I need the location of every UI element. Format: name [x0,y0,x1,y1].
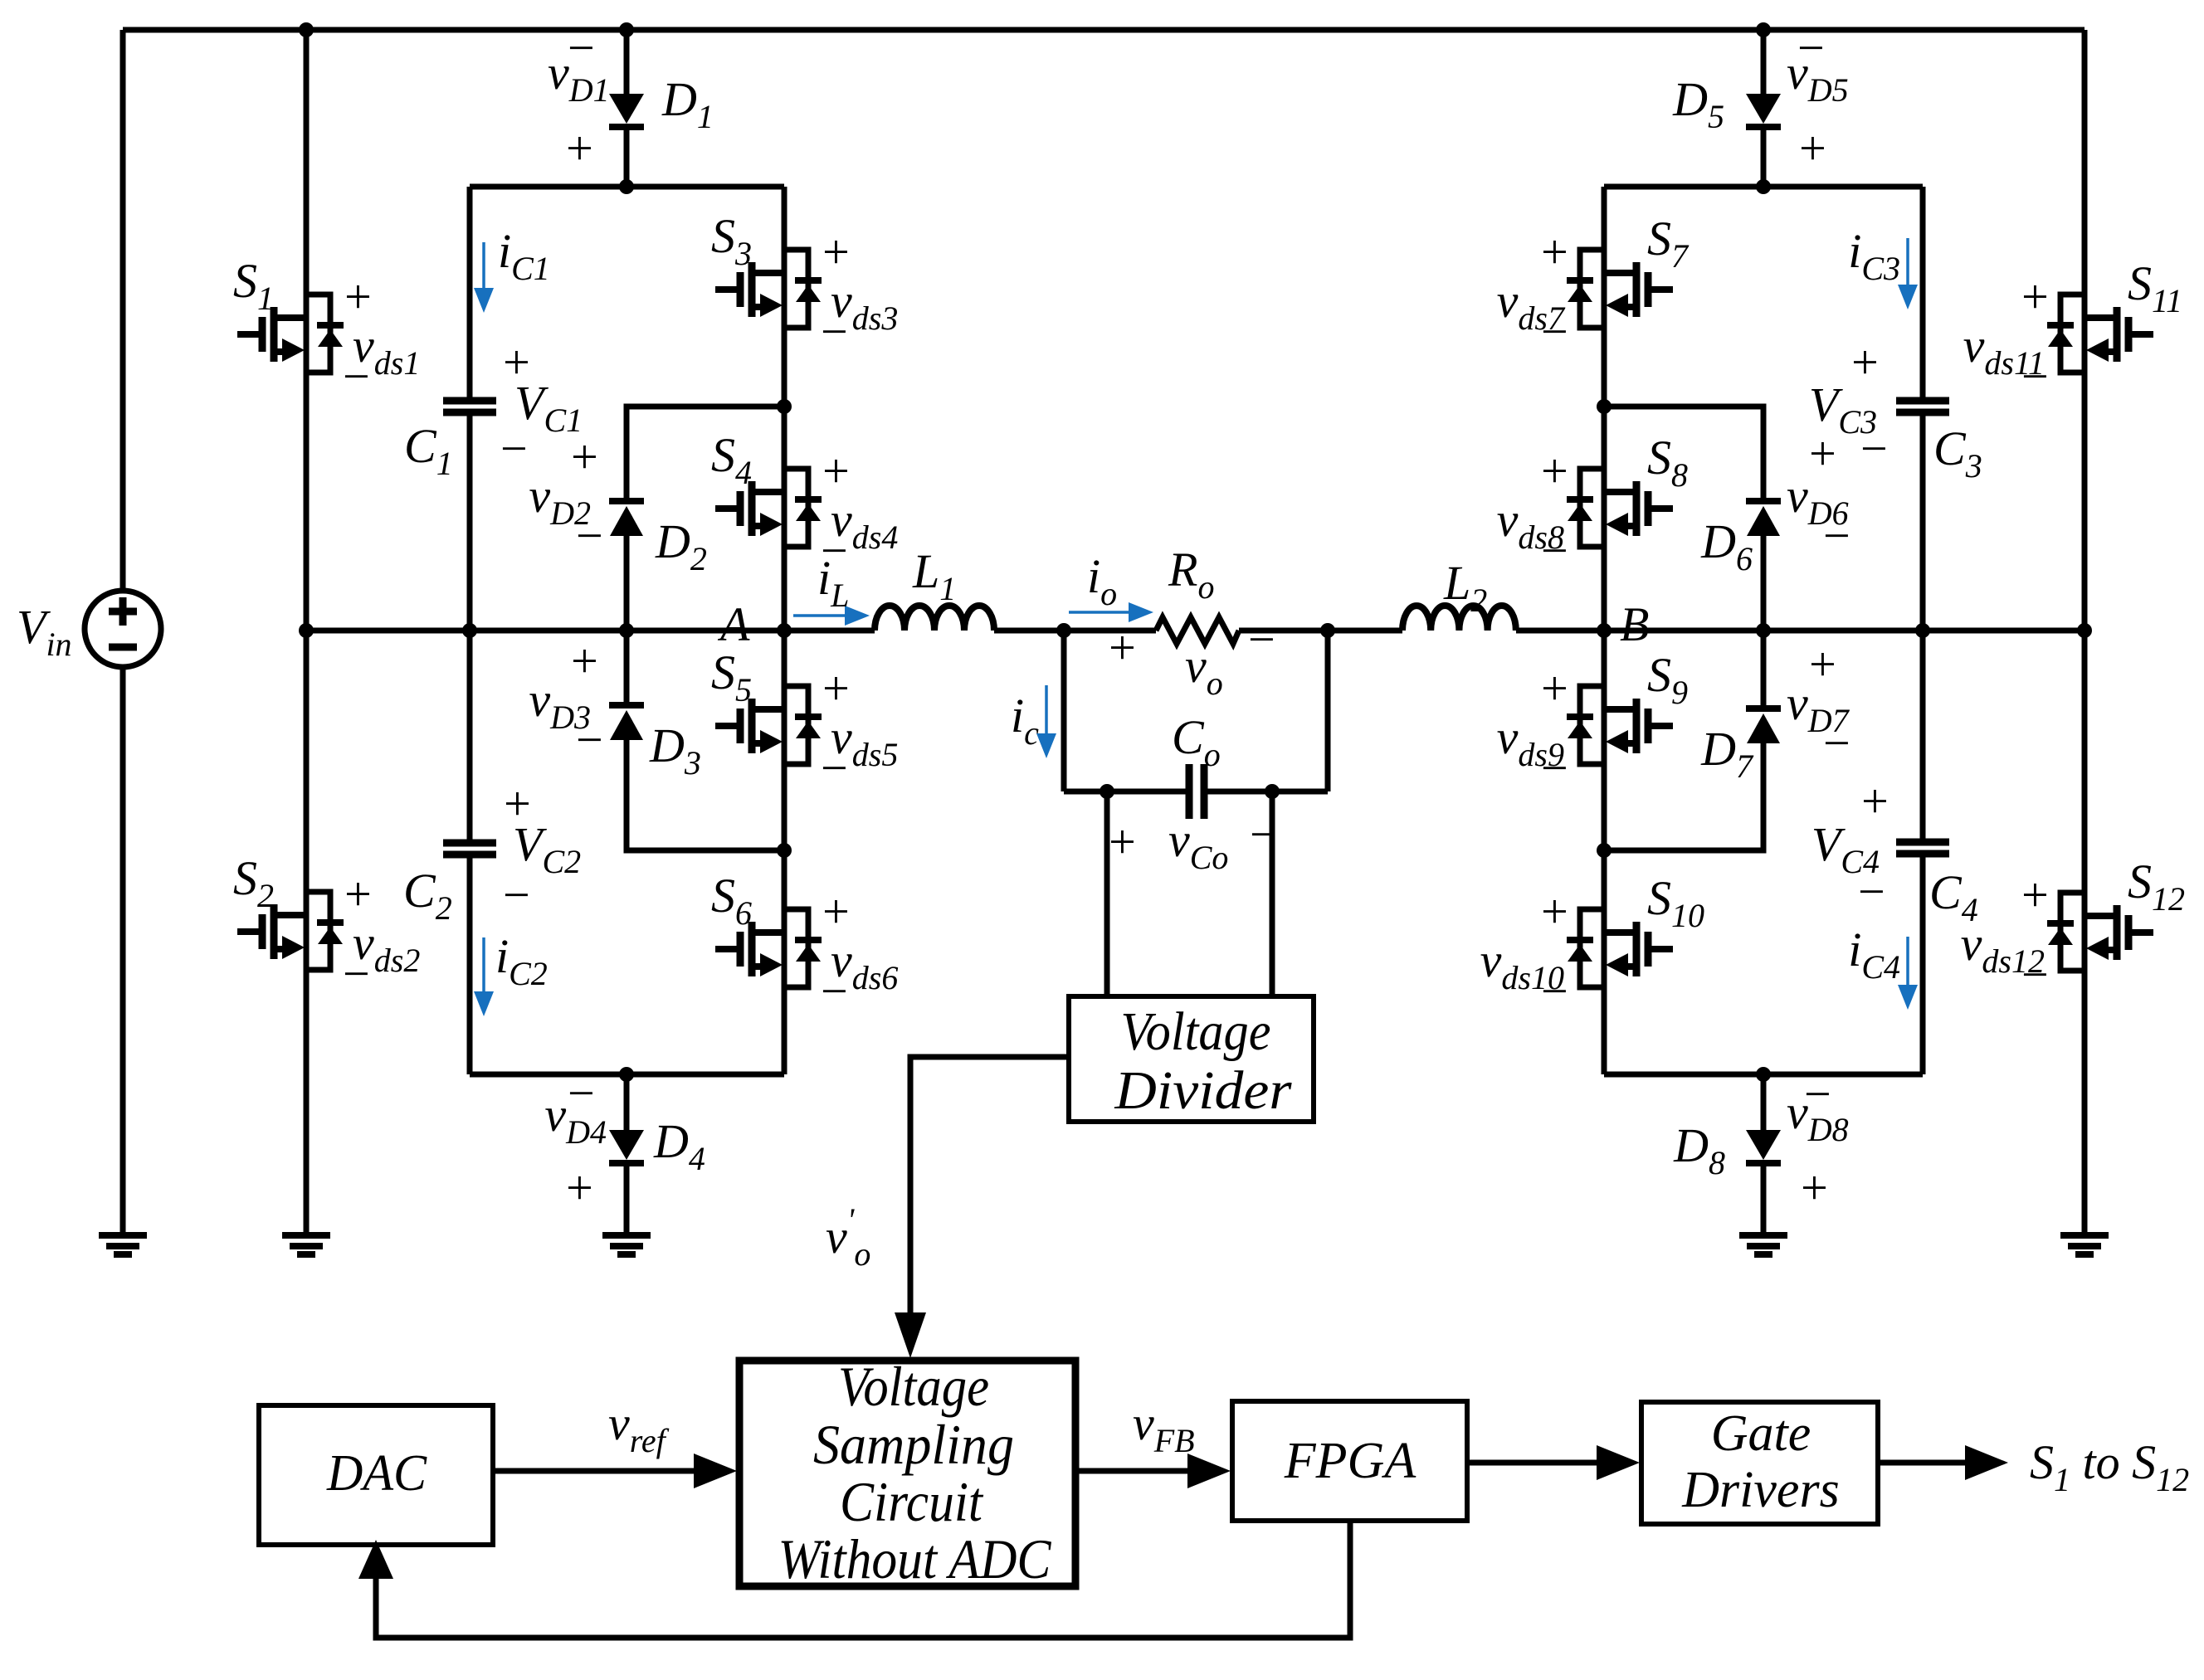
svg-text:−: − [564,1066,597,1120]
ground (S12 column) [2060,1235,2109,1254]
svg-text:vo: vo [1185,639,1223,702]
transistor S9 [1567,686,1673,764]
node mid rail / S11-S12 [2077,623,2092,638]
node S7-S8 junction [1597,399,1612,414]
svg-text:S5: S5 [711,645,752,709]
svg-text:−: − [497,421,529,475]
svg-text:+: + [1797,1161,1830,1215]
wire right block top rail [1604,184,1923,190]
wire C2 column [467,631,473,843]
transistor S12 [2047,893,2153,971]
transistor S3 [715,250,822,328]
voltage source Vin [85,591,161,667]
wire Voltage Divider output [910,1057,1069,1315]
svg-text:Co: Co [1172,710,1221,773]
svg-text:D4: D4 [653,1114,705,1177]
svg-text:C3: C3 [1933,421,1982,485]
diode D3 [609,702,644,709]
svg-text:+: + [2018,270,2050,324]
ground (S2 column) [282,1235,330,1254]
arrow FPGA to Gate Drivers [1467,1460,1597,1466]
svg-text:+: + [819,661,851,715]
svg-text:Voltage: Voltage [838,1355,989,1418]
transistor S5 [715,686,822,764]
svg-text:+: + [568,634,600,688]
svg-text:−: − [1538,304,1570,358]
node B [1597,623,1612,638]
wire right block bottom rail [1604,1072,1923,1078]
wire C3 column [1920,187,1926,401]
node S9-S10 junction [1597,843,1612,858]
svg-text:+: + [1538,225,1570,279]
svg-text:Sampling: Sampling [813,1413,1014,1476]
current arrow iC2 [482,937,485,991]
wire S1/S2 column [304,30,310,1235]
wire S5-S6 column [782,631,787,1074]
current arrow iC1 [482,242,485,288]
capacitor C2 [443,843,496,855]
wire Co rail left [1064,789,1189,795]
wire left outer column bottom [120,667,126,1235]
wire to Voltage Divider right [1270,791,1275,996]
capacitor C3 [1896,401,1949,412]
capacitor C1 [443,401,496,412]
svg-text:L1: L1 [912,544,956,607]
box Voltage Divider [1069,996,1314,1122]
transistor S10 [1567,909,1673,987]
wire D5 branch [1761,30,1767,94]
svg-text:+: + [1848,335,1880,389]
transistor S6 [715,909,822,987]
transistor S7 [1567,250,1673,328]
current arrow iC4 [1906,937,1909,985]
wire D7 branch [1761,631,1767,705]
wire left block top rail [470,184,784,190]
transistor S11 [2047,295,2153,373]
diode D7 [1746,705,1781,712]
wire left outer column top [120,30,126,591]
capacitor Co [1189,764,1204,819]
node S3-S4 junction [777,399,792,414]
wire S9-S10 column [1602,631,1607,1074]
svg-text:+: + [819,225,851,279]
svg-text:S9: S9 [1647,648,1688,711]
node D8 junction [1756,1067,1771,1082]
wire loop right vertical [1325,631,1331,791]
svg-text:D1: D1 [661,72,714,135]
ground (D8) [1739,1235,1787,1254]
svg-text:Voltage: Voltage [1121,1001,1271,1062]
svg-text:S10: S10 [1647,871,1704,934]
svg-text:Without ADC: Without ADC [778,1527,1052,1590]
arrow DAC to sampling [493,1468,694,1474]
node VD right [1265,784,1280,799]
svg-text:D3: D3 [649,718,701,782]
node D1 bottom [619,179,634,194]
wire Co rail right [1204,789,1328,795]
node D4 junction [619,1067,634,1082]
diode D4 [609,1130,644,1160]
wire S3-S4 column [782,187,787,631]
node VD left [1100,784,1114,799]
svg-text:+: + [563,1161,595,1215]
node mid rail / C1-C2 [462,623,477,638]
svg-text:−: − [1538,523,1570,577]
node mid rail / D6-D7 [1756,623,1771,638]
resistor Ro [1156,617,1239,644]
svg-text:+: + [819,884,851,938]
wire mid rail right section [1516,628,2085,634]
svg-text:+: + [1796,121,1828,175]
current arrow iL [793,614,845,617]
capacitor C4 [1896,842,1949,854]
wire C1 column top [467,187,473,401]
svg-text:+: + [1538,884,1570,938]
svg-text:C1: C1 [404,419,453,482]
svg-text:D5: D5 [1672,72,1724,135]
svg-text:iC1: iC1 [498,224,550,287]
svg-text:Gate: Gate [1711,1405,1811,1462]
svg-text:vCo: vCo [1168,813,1228,876]
wire D6 branch [1604,407,1763,498]
svg-text:S11: S11 [2128,256,2182,319]
svg-text:+: + [2018,868,2050,922]
ground (D4) [602,1235,651,1254]
node loop right [1320,623,1335,638]
wire C4 column [1920,631,1926,842]
svg-text:DAC: DAC [326,1445,427,1502]
svg-text:S1: S1 [233,254,274,317]
svg-text:A: A [717,597,750,651]
diode D6 [1746,498,1781,504]
svg-text:FPGA: FPGA [1284,1433,1417,1489]
svg-text:D7: D7 [1700,722,1754,785]
svg-text:S6: S6 [711,869,752,932]
current arrow ic [1045,685,1048,733]
svg-text:S4: S4 [711,428,752,491]
wire D1 branch [624,30,630,94]
svg-text:+: + [1806,426,1838,480]
inductor L1 [875,606,994,631]
svg-text:Drivers: Drivers [1681,1462,1839,1518]
svg-text:io: io [1087,549,1117,612]
svg-text:Circuit: Circuit [840,1470,984,1533]
svg-text:D6: D6 [1700,514,1753,577]
svg-text:+: + [1538,444,1570,498]
node mid rail / D2-D3 [619,623,634,638]
svg-text:−: − [1820,716,1852,770]
svg-text:L2: L2 [1443,556,1487,619]
diode D8 [1746,1130,1781,1160]
svg-text:D2: D2 [655,514,707,577]
svg-text:+: + [1538,661,1570,715]
svg-text:iC4: iC4 [1848,923,1900,986]
svg-text:−: − [573,509,605,562]
svg-text:+: + [568,430,600,484]
box DAC [259,1405,493,1545]
wire mid rail after Ro [1239,628,1402,634]
node A [777,623,792,638]
svg-text:+: + [563,121,595,175]
svg-text:−: − [1855,864,1887,918]
svg-text:S2: S2 [233,851,274,914]
diode D5 [1746,94,1781,124]
svg-text:+: + [1105,815,1138,869]
svg-text:−: − [500,868,532,922]
inductor L2 [1402,606,1516,631]
wire FPGA feedback to DAC [376,1521,1350,1638]
svg-text:+: + [1105,621,1138,674]
current arrow iC3 [1906,238,1909,285]
svg-text:−: − [2018,947,2050,1001]
svg-text:−: − [573,713,605,767]
node S5-S6 junction [777,843,792,858]
wire D8 branch [1761,1074,1767,1130]
svg-text:iC3: iC3 [1848,224,1900,287]
svg-text:S3: S3 [711,209,752,272]
wire right outer column (S11/S12) [2082,30,2088,1235]
svg-text:B: B [1620,597,1649,651]
wire left block bottom rail [470,1072,784,1078]
svg-text:−: − [817,741,850,795]
svg-text:−: − [564,21,597,75]
node top rail / D1 [619,22,634,37]
svg-text:+: + [341,270,373,324]
wire mid rail left section [306,628,875,634]
node D5 bottom [1756,179,1771,194]
svg-text:C2: C2 [403,864,452,927]
box Voltage Sampling Circuit Without ADC [739,1361,1075,1586]
diode D2 [609,498,644,504]
svg-text:vref: vref [608,1396,670,1459]
node top rail / S1 column [299,22,314,37]
wire top rail [123,27,2085,33]
wire mid rail A-loop section [994,628,1156,634]
arrow Gate Drivers output [1878,1460,1965,1466]
wire D2 branch [627,407,784,498]
arrow sampling to FPGA [1075,1468,1187,1474]
svg-text:−: − [2018,349,2050,403]
svg-text:−: − [817,304,850,358]
svg-text:S12: S12 [2128,855,2185,918]
svg-text:Ro: Ro [1168,543,1214,606]
wire loop left vertical [1061,631,1067,791]
box FPGA [1232,1401,1467,1521]
wire S7-S8 column [1602,187,1607,631]
box Gate Drivers [1641,1402,1878,1524]
svg-text:−: − [1538,741,1570,795]
transistor S1 [237,295,344,373]
svg-text:−: − [1538,964,1570,1018]
node mid rail / C3-C4 [1915,623,1930,638]
svg-text:+: + [1806,637,1838,691]
svg-text:−: − [817,964,850,1018]
transistor S8 [1567,469,1673,547]
wire D4 branch [624,1074,630,1130]
wire D3 branch [624,631,630,705]
svg-text:−: − [339,947,372,1001]
svg-text:+: + [1858,774,1890,828]
svg-text:v'o: v'o [826,1201,870,1273]
svg-text:−: − [339,349,372,403]
svg-text:vFB: vFB [1133,1396,1195,1459]
svg-text:iC2: iC2 [495,929,548,992]
svg-text:−: − [1820,509,1852,562]
svg-text:S1 to S12: S1 to S12 [2030,1435,2189,1498]
svg-text:S8: S8 [1647,431,1688,494]
svg-text:Divider: Divider [1114,1060,1291,1121]
node top rail / D5 [1756,22,1771,37]
svg-text:+: + [819,444,851,498]
svg-text:Vin: Vin [17,600,72,663]
transistor S4 [715,469,822,547]
svg-text:+: + [341,867,373,921]
wire to Voltage Divider left [1104,791,1110,996]
svg-text:ic: ic [1011,689,1039,752]
transistor S2 [237,892,344,970]
diode D1 [609,94,644,124]
svg-text:−: − [1245,612,1277,666]
svg-text:D8: D8 [1673,1118,1725,1181]
svg-text:−: − [1857,421,1889,475]
node loop left [1056,623,1071,638]
node mid rail / S1-S2 [299,623,314,638]
current arrow io [1069,611,1129,614]
ground (left outer) [99,1235,147,1254]
svg-text:S7: S7 [1647,212,1690,275]
